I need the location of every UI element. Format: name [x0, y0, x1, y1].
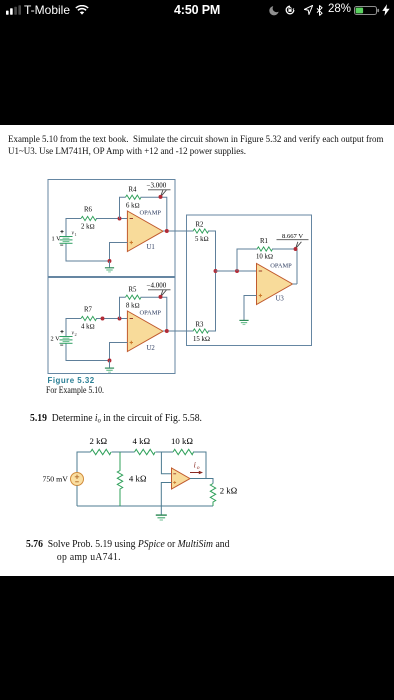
svg-text:OPAMP: OPAMP: [270, 263, 292, 270]
node: R1 tap junction: [235, 269, 239, 273]
wifi icon: [75, 5, 89, 16]
resistor R6: [81, 216, 97, 220]
svg-text:10 kΩ: 10 kΩ: [171, 436, 193, 446]
resistor R7: [81, 316, 97, 320]
current io arrow: [190, 472, 200, 474]
battery percent: [328, 3, 351, 15]
svg-text:2 kΩ: 2 kΩ: [220, 486, 238, 496]
wire: R4 to output node vertical: [141, 197, 167, 231]
wire: up from tap to R1: [237, 249, 258, 271]
svg-text:U2: U2: [147, 345, 156, 352]
svg-text:10 kΩ: 10 kΩ: [256, 254, 273, 261]
cellular signal bars: [6, 5, 22, 15]
svg-text:R5: R5: [129, 287, 138, 294]
svg-text:4 kΩ: 4 kΩ: [129, 474, 147, 484]
stage-1 enclosure box: [48, 180, 175, 277]
node: U1 inverting input junction: [118, 217, 122, 221]
wire: battery V1 bottom rail: [66, 243, 110, 261]
resistor R1: [257, 247, 273, 251]
svg-text:5 kΩ: 5 kΩ: [195, 236, 209, 243]
U3 minus pin mark: [259, 270, 262, 272]
svg-text:U1: U1: [147, 244, 155, 251]
resistor 2k top-left: [91, 449, 112, 454]
svg-text:R1: R1: [260, 238, 268, 245]
svg-text:R4: R4: [129, 187, 138, 194]
svg-text:1 V: 1 V: [52, 236, 62, 243]
wire: op-amp output to 2k load: [190, 479, 213, 484]
wire: source bottom to rail: [76, 486, 78, 507]
wire: top rail: [77, 452, 206, 479]
node: probe tap on stage-2 feedback wire: [159, 295, 163, 299]
op-amp U1: [127, 211, 163, 252]
source plus sign: [75, 475, 79, 479]
wire: U2 output: [163, 330, 194, 332]
wire: U1 noninverting input to ground rail: [110, 243, 128, 262]
svg-text:6 kΩ: 6 kΩ: [126, 203, 140, 210]
svg-text:4 kΩ: 4 kΩ: [133, 436, 151, 446]
resistor 4k shunt vertical: [117, 452, 122, 506]
white document page: [0, 125, 394, 576]
clock: [174, 3, 220, 17]
op-amp plus pin mark: [173, 481, 176, 484]
source minus sign: [75, 481, 79, 483]
wire: bottom rail: [77, 505, 213, 507]
wire: U3 output to feedback corner: [293, 283, 298, 285]
wire: noninverting input to ground: [161, 483, 171, 507]
svg-text:1: 1: [75, 232, 77, 237]
wire: U3 noninverting input to ground: [244, 296, 257, 321]
U1 plus pin mark: [130, 241, 133, 244]
svg-text:750 mV: 750 mV: [43, 474, 69, 483]
source V1 battery symbol: [60, 237, 73, 244]
svg-text:R6: R6: [84, 207, 93, 214]
svg-text:OPAMP: OPAMP: [140, 210, 162, 217]
op-amp minus pin mark: [173, 473, 176, 475]
wire: feedback up from inverting node to R5: [120, 297, 126, 318]
wire: U2 noninverting input to ground rail: [110, 343, 128, 361]
location arrow icon: [304, 5, 313, 15]
node: U2 inverting input junction: [118, 317, 122, 321]
node: U1 output junction: [165, 229, 169, 233]
svg-text:i: i: [194, 461, 196, 470]
wire: ground stem fig 5.58: [160, 506, 162, 515]
svg-text:R3: R3: [196, 322, 205, 329]
wire: R6 to U1 inverting input: [96, 218, 127, 220]
svg-text:R7: R7: [84, 307, 93, 314]
wire: battery V2 bottom rail: [66, 343, 110, 360]
svg-text:U3: U3: [276, 296, 285, 303]
V2 minus sign: [60, 344, 63, 346]
carrier name: [24, 3, 70, 17]
wire: R5 to output node vertical: [141, 297, 167, 331]
wire: R2 down to summing node: [208, 231, 216, 271]
svg-text:o: o: [197, 465, 200, 471]
node: stage-2 ground junction: [108, 359, 112, 363]
wire: R3 up to summing node: [208, 271, 216, 331]
resistor R5: [126, 295, 142, 299]
wire: battery V2 top to R7: [66, 319, 81, 337]
node: U3 output probe junction: [294, 247, 298, 251]
node: junction after R7: [101, 317, 105, 321]
bluetooth icon: [316, 5, 323, 16]
moon icon: [269, 5, 280, 16]
svg-text:R2: R2: [196, 222, 205, 229]
source V2 battery symbol: [60, 337, 73, 344]
op-amp fig 5.58: [172, 468, 191, 489]
ground stage 2: [105, 368, 114, 372]
U2 minus pin mark: [130, 318, 133, 320]
node: probe tap on feedback wire: [159, 195, 163, 199]
probe marker V(8.667): [277, 239, 309, 241]
ground stage 1: [105, 268, 114, 272]
V2 plus sign: [60, 330, 63, 333]
wire: inverting tap down to op-amp: [161, 452, 171, 474]
node: summing junction: [214, 269, 218, 273]
op-amp U3: [257, 264, 293, 305]
svg-text:2 kΩ: 2 kΩ: [90, 436, 108, 446]
wire: ground stem: [109, 261, 111, 268]
wire: R1 to U3 output node: [272, 249, 297, 284]
node: stage-1 ground junction: [108, 259, 112, 263]
resistor 2k load vertical: [210, 484, 215, 507]
resistor R3: [193, 329, 209, 333]
svg-text:15 kΩ: 15 kΩ: [193, 336, 210, 343]
svg-text:−4.000: −4.000: [147, 282, 167, 290]
U1 minus pin mark: [130, 218, 133, 220]
svg-text:2 kΩ: 2 kΩ: [81, 224, 95, 231]
svg-text:4 kΩ: 4 kΩ: [81, 324, 95, 331]
resistor R2: [193, 229, 209, 233]
wire: R7 to U2 inverting input: [96, 318, 127, 320]
op-amp U2: [127, 311, 163, 352]
V1 minus sign: [60, 244, 63, 246]
resistor 10k feedback: [173, 449, 194, 454]
wire: feedback up from inverting node to R4: [120, 197, 126, 218]
U3 plus pin mark: [259, 294, 262, 297]
probe marker V(-3.000): [148, 189, 171, 191]
ground stage 3: [239, 320, 248, 324]
charging bolt icon: [382, 4, 390, 16]
svg-text:OPAMP: OPAMP: [140, 310, 162, 317]
svg-text:8.667 V: 8.667 V: [282, 233, 303, 240]
source 750mV circle: [71, 473, 84, 486]
rotation lock icon: [285, 5, 295, 15]
resistor 4k series: [135, 449, 156, 454]
node: U2 output junction: [165, 329, 169, 333]
svg-text:−3.000: −3.000: [147, 182, 167, 190]
wire: battery V1 top to R6: [66, 219, 81, 237]
stage-2 enclosure box: [48, 278, 175, 374]
resistor R4: [126, 195, 142, 199]
probe marker V(-4.000): [148, 289, 171, 291]
svg-text:8 kΩ: 8 kΩ: [126, 303, 140, 310]
stage-3 enclosure box: [187, 215, 312, 346]
wire: stage-2 ground stem: [109, 361, 111, 368]
ground fig 5.58: [156, 515, 167, 520]
U2 plus pin mark: [130, 341, 133, 344]
V1 plus sign: [60, 230, 63, 233]
svg-text:2: 2: [75, 332, 77, 337]
wire: summing node to U3 inverting input: [216, 270, 257, 272]
wire: U1 output: [163, 230, 194, 232]
battery icon: [354, 6, 380, 15]
svg-text:2 V: 2 V: [51, 336, 61, 343]
